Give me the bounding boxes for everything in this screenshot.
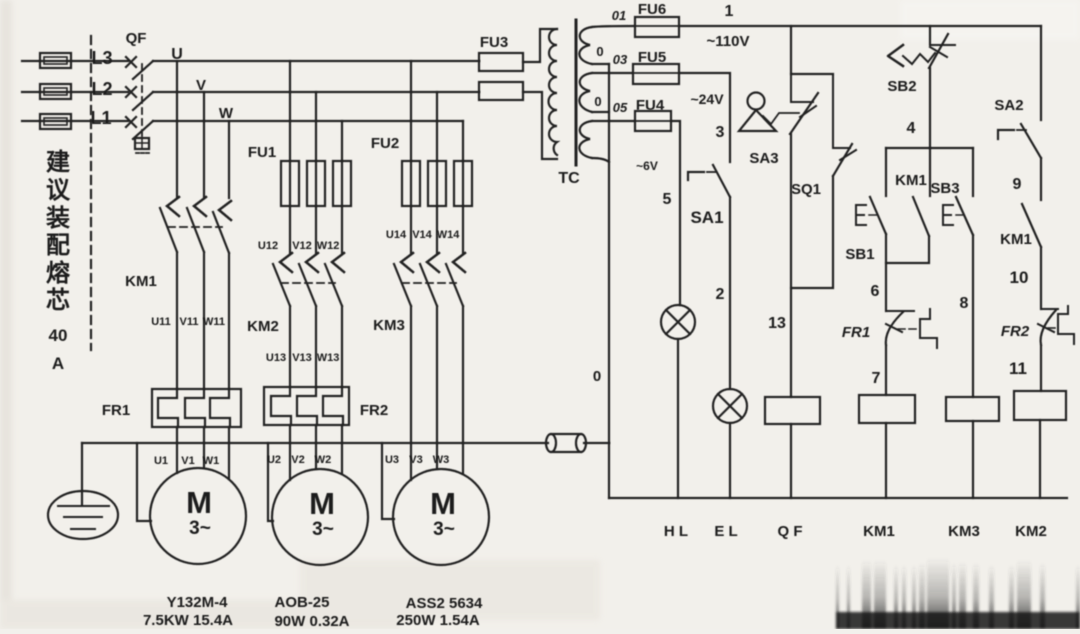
svg-text:FR2: FR2	[1001, 323, 1030, 340]
contact FR1 (NC thermal)	[886, 309, 937, 348]
svg-text:13: 13	[768, 315, 786, 332]
earth branch motor2	[268, 443, 273, 521]
wire net1 dropper to SB2	[929, 26, 931, 45]
earth bus wire	[82, 442, 609, 444]
svg-text:2: 2	[716, 286, 725, 303]
pushbutton SB2	[888, 34, 955, 68]
wire net1 dropper to QF coil branch	[790, 26, 792, 74]
wire tap 05 to FU4	[592, 120, 635, 122]
wire FU2 pole1 drop	[410, 61, 412, 254]
wire KM1 to FR1 pole3	[228, 253, 230, 389]
text layer: control circuit	[480, 1, 1047, 540]
wire SQ1 branch rejoin	[791, 176, 833, 288]
svg-text:10: 10	[1010, 268, 1029, 287]
motor M3 text	[430, 486, 456, 540]
svg-text:U12: U12	[258, 240, 278, 252]
FR1 heater pole3	[210, 389, 230, 427]
contactor KM2 pole 1	[273, 253, 292, 306]
svg-text:KM1: KM1	[125, 273, 157, 290]
motor M2	[272, 469, 368, 565]
fuse FU1-3	[333, 161, 351, 206]
contactor KM1 main pole 1	[160, 197, 179, 252]
svg-text:FU1: FU1	[248, 144, 276, 161]
svg-text:6: 6	[871, 283, 880, 300]
wire FU4 to HL branch	[671, 121, 680, 305]
wire FU5 to SA1 branch	[679, 73, 730, 162]
svg-text:M: M	[430, 486, 456, 521]
coil KM3	[946, 397, 999, 421]
wire SA2 to KM1 contact	[1040, 158, 1042, 200]
wire L2 incoming	[22, 91, 128, 93]
wire SB1 to FR1 contact	[885, 234, 887, 311]
svg-text:E L: E L	[714, 523, 737, 540]
contactor KM2 pole 2	[299, 253, 318, 306]
fuse L1	[40, 114, 71, 129]
lamp EL	[713, 389, 747, 423]
svg-text:ASS2 5634: ASS2 5634	[406, 595, 483, 612]
svg-text:FU2: FU2	[371, 135, 399, 152]
wire phase U	[153, 60, 479, 62]
earth branch motor1	[137, 443, 151, 521]
breaker QF pole L2	[126, 87, 153, 110]
svg-text:AOB-25: AOB-25	[274, 594, 329, 611]
thermal relay FR2 box	[264, 387, 349, 425]
motor M1	[150, 468, 246, 564]
FR1 heater pole1	[158, 389, 178, 427]
svg-text:4: 4	[907, 120, 916, 137]
scanner smear artifact (barcode-like)	[836, 558, 1080, 629]
fuse FU5	[633, 64, 679, 84]
svg-text:FU6: FU6	[638, 1, 666, 18]
wire net1 dropper to SA2	[1040, 26, 1042, 120]
wire V dropper to KM1	[203, 92, 205, 198]
wire KM2 coil to bottom bus	[1039, 420, 1041, 498]
transformer TC core	[575, 20, 578, 165]
svg-text:0: 0	[596, 44, 603, 59]
svg-text:KM2: KM2	[247, 318, 279, 335]
svg-text:250W 1.54A: 250W 1.54A	[396, 612, 480, 629]
svg-text:W13: W13	[317, 352, 340, 364]
wire FU1 pole1 drop	[289, 61, 291, 254]
svg-text:V2: V2	[291, 454, 304, 466]
svg-text:M: M	[186, 485, 212, 520]
wire FR2 to KM2 coil	[1040, 345, 1042, 391]
svg-text:3~: 3~	[312, 519, 334, 540]
coil KM2	[1014, 391, 1066, 420]
wire FU2 pole3 drop	[462, 121, 464, 254]
switch SA2	[998, 124, 1041, 158]
wire HL to bottom bus	[677, 339, 679, 498]
TC secondary winding 3	[579, 121, 592, 158]
svg-text:FR2: FR2	[360, 402, 388, 419]
fuse FU2-2	[428, 161, 446, 206]
svg-text:L3: L3	[91, 48, 112, 68]
breaker QF pole L1	[126, 117, 153, 139]
wire KM1 to FR1 pole2	[203, 252, 205, 389]
svg-text:9: 9	[1013, 176, 1022, 193]
pushbutton SB3	[943, 148, 973, 235]
svg-text:KM1: KM1	[863, 523, 895, 540]
svg-text:V11: V11	[180, 316, 199, 328]
ink layer	[22, 36, 609, 565]
svg-text:V: V	[196, 77, 206, 94]
svg-text:Q F: Q F	[778, 523, 803, 540]
svg-text:~110V: ~110V	[707, 33, 750, 50]
motor2 spec	[274, 594, 349, 630]
text layer part 1	[46, 30, 483, 630]
svg-text:FU5: FU5	[638, 49, 666, 66]
switch SA1	[688, 165, 730, 197]
wire FU3-1 to TC primary top	[523, 29, 557, 62]
svg-text:8: 8	[960, 295, 969, 312]
contact operated by SA3	[790, 74, 818, 134]
wire phase V	[153, 91, 479, 93]
svg-text:TC: TC	[558, 170, 580, 187]
svg-text:KM1: KM1	[1000, 231, 1032, 248]
fuse FU4	[635, 111, 671, 131]
svg-text:建: 建	[46, 149, 70, 176]
svg-text:配: 配	[46, 232, 70, 259]
svg-text:FR1: FR1	[102, 402, 130, 419]
svg-text:W2: W2	[315, 454, 332, 466]
note 40 A vertical chinese	[46, 149, 71, 373]
wire KM1 to FR1 pole1	[176, 252, 178, 389]
contactor KM1 main pole 2	[187, 197, 206, 252]
svg-text:SQ1: SQ1	[791, 181, 821, 198]
svg-text:V3: V3	[409, 454, 422, 466]
wire L1 incoming	[22, 120, 128, 122]
earth branch motor3	[382, 443, 394, 519]
coil QF	[765, 397, 820, 424]
motor M3	[393, 469, 489, 565]
FR2 heater pole2	[297, 387, 317, 425]
wire phase W	[153, 120, 463, 122]
svg-text:FU3: FU3	[480, 34, 508, 51]
svg-text:~24V: ~24V	[690, 91, 724, 107]
motor M2 text	[309, 486, 335, 540]
contactor KM1 main pole 3	[213, 201, 231, 253]
bottom bus wire	[609, 497, 1067, 499]
svg-text:V13: V13	[292, 352, 312, 364]
svg-text:11: 11	[1009, 359, 1027, 378]
fuse FU1-1	[281, 161, 299, 206]
wire W dropper to KM1	[228, 121, 230, 198]
transformer TC primary winding	[549, 29, 558, 155]
wire FR2 to motor2 leads	[290, 425, 342, 480]
svg-text:U11: U11	[151, 316, 171, 328]
svg-text:W11: W11	[203, 316, 225, 328]
wire KM1 contact to FR2 contact	[1040, 247, 1042, 309]
svg-text:熔: 熔	[46, 259, 71, 287]
svg-text:3: 3	[716, 124, 725, 141]
contactor KM3 pole 2	[420, 253, 439, 306]
svg-text:3~: 3~	[433, 519, 455, 540]
wire tap 0 upper to 0 line	[592, 63, 609, 65]
wire SB2 to node 4	[929, 68, 931, 148]
TC secondary winding 1	[579, 27, 592, 64]
wire KM3 to motor3 leads	[411, 306, 463, 480]
svg-text:U13: U13	[266, 352, 286, 364]
wire L3 incoming	[22, 60, 128, 62]
svg-text:L1: L1	[90, 108, 111, 128]
motor3 spec	[396, 595, 483, 629]
ground electrode	[48, 443, 118, 539]
wire FU1 pole3 drop	[341, 121, 343, 254]
svg-text:~6V: ~6V	[636, 159, 658, 173]
svg-text:M: M	[309, 486, 335, 521]
svg-text:W12: W12	[317, 240, 340, 252]
contactor KM3 pole 3	[446, 253, 465, 306]
KM2 linkage	[281, 282, 335, 284]
switch head SA3	[739, 93, 799, 132]
svg-text:U2: U2	[267, 454, 281, 466]
svg-text:FU4: FU4	[636, 97, 665, 114]
svg-text:0: 0	[594, 94, 601, 109]
svg-text:W3: W3	[433, 454, 450, 466]
fuse FU3-1	[479, 53, 523, 71]
wire U dropper to KM1	[176, 61, 178, 198]
ink layer: control circuit	[479, 17, 1074, 498]
fuse FU1-2	[307, 161, 325, 206]
wire KM3 coil to bottom bus	[972, 421, 974, 498]
breaker QF pole L3	[126, 57, 153, 79]
svg-text:7.5KW 15.4A: 7.5KW 15.4A	[143, 612, 233, 629]
svg-text:Y132M-4: Y132M-4	[167, 594, 229, 611]
svg-text:U3: U3	[385, 454, 399, 466]
wire SA1 to EL	[729, 197, 731, 389]
wire QF coil to bottom bus	[790, 424, 792, 498]
coil KM1	[859, 395, 915, 423]
wire net 0 vertical	[608, 64, 610, 498]
contact FR2 (NC thermal)	[1038, 306, 1074, 345]
contact KM1 (interlock)	[1022, 204, 1041, 247]
wire node 4 horizontal	[886, 147, 973, 149]
svg-text:KM1: KM1	[895, 172, 927, 189]
fuse FU3-2	[479, 82, 523, 100]
wire net 1 top bus	[679, 25, 1041, 27]
svg-text:A: A	[52, 354, 64, 373]
FR2 heater pole3	[323, 387, 343, 425]
svg-text:SA3: SA3	[749, 150, 778, 167]
fuse FU2-1	[402, 161, 420, 206]
motor1 spec	[143, 594, 233, 629]
wire winding3 bottom to 0 line	[592, 158, 609, 162]
svg-text:0: 0	[593, 368, 601, 385]
FR1 heater pole2	[185, 389, 205, 427]
wire jog to SQ1 branch	[791, 73, 833, 75]
wire FU1 pole2 drop	[315, 92, 317, 254]
svg-text:L2: L2	[91, 79, 112, 99]
wire tap 0 lower to 0 line	[592, 111, 609, 113]
dashed boundary line	[90, 36, 92, 350]
svg-text:V1: V1	[181, 455, 194, 467]
fuse L3	[40, 53, 71, 68]
svg-text:40: 40	[49, 326, 68, 345]
pushbutton SB1	[856, 148, 886, 234]
svg-text:KM3: KM3	[948, 523, 980, 540]
contact KM1 aux (self hold)	[886, 148, 930, 263]
wire tap 01 to FU6	[592, 26, 635, 27]
svg-text:U1: U1	[154, 455, 168, 467]
FR2 heater pole1	[271, 387, 291, 425]
svg-text:05: 05	[613, 100, 628, 115]
wire KM1 coil to bottom bus	[885, 423, 887, 498]
thermal relay FR1 box	[152, 389, 241, 427]
fuse FU2-3	[454, 161, 472, 206]
svg-text:SB3: SB3	[930, 180, 959, 197]
KM3 linkage	[402, 282, 456, 284]
KM1 linkage	[168, 226, 222, 228]
fuse FU6	[635, 17, 679, 37]
wire FR1 to KM1 coil	[885, 345, 887, 395]
svg-text:W1: W1	[203, 455, 220, 467]
svg-text:SB2: SB2	[887, 78, 916, 95]
svg-text:7: 7	[872, 370, 881, 387]
TC secondary winding 2	[579, 73, 592, 112]
lamp HL	[661, 305, 695, 339]
svg-text:芯: 芯	[46, 287, 70, 314]
svg-text:KM2: KM2	[1015, 523, 1047, 540]
limit switch SQ1	[833, 74, 856, 176]
fuse L2	[40, 84, 71, 99]
svg-text:装: 装	[46, 205, 70, 232]
wire FU3-2 to TC primary bottom	[523, 92, 557, 159]
wire FR1 to motor1 leads	[177, 427, 229, 479]
contactor KM2 pole 3	[325, 253, 344, 306]
motor M1 text	[186, 485, 212, 539]
svg-text:U: U	[171, 46, 183, 63]
svg-text:3~: 3~	[189, 518, 211, 539]
contactor KM3 pole 1	[394, 253, 413, 306]
svg-text:议: 议	[46, 177, 71, 204]
svg-text:V14: V14	[412, 229, 432, 241]
cable joint on earth wire	[546, 434, 586, 452]
svg-text:FR1: FR1	[842, 324, 870, 341]
svg-text:SA1: SA1	[690, 208, 723, 227]
QF operating mechanism	[135, 138, 149, 153]
svg-text:W: W	[219, 105, 234, 122]
svg-text:01: 01	[612, 8, 626, 23]
svg-text:90W 0.32A: 90W 0.32A	[274, 613, 349, 629]
wire tap 03 to FU5	[592, 72, 633, 74]
wire FU2 pole2 drop	[436, 92, 438, 254]
wire below SA3 contact	[790, 134, 792, 397]
svg-text:SA2: SA2	[994, 97, 1023, 114]
svg-text:5: 5	[663, 191, 672, 208]
wire EL to bottom bus	[729, 423, 731, 498]
svg-text:H L: H L	[664, 523, 688, 540]
svg-text:KM3: KM3	[373, 317, 405, 334]
svg-text:U14: U14	[386, 229, 407, 241]
svg-text:1: 1	[725, 3, 734, 20]
svg-text:QF: QF	[126, 30, 147, 47]
wire SB3 to KM3 coil	[972, 235, 974, 397]
QF linkage	[141, 64, 143, 136]
svg-text:03: 03	[613, 52, 628, 67]
svg-text:SB1: SB1	[845, 246, 874, 263]
svg-text:V12: V12	[292, 240, 312, 252]
svg-text:W14: W14	[437, 229, 461, 241]
wire KM2 to FR2	[290, 306, 342, 387]
